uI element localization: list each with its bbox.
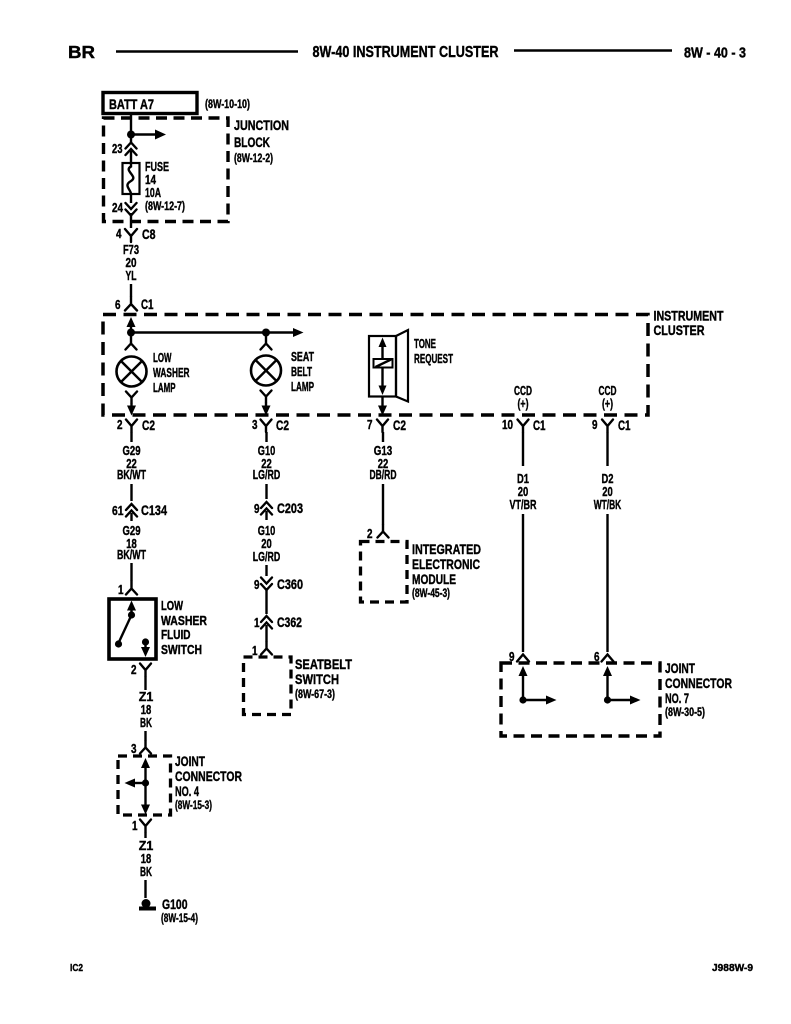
svg-text:20: 20 (518, 485, 529, 499)
connector chevrons C362 (up) (261, 616, 272, 629)
pin 24 label (112, 201, 123, 215)
wire connector to fuse (130, 151, 132, 163)
svg-text:MODULE: MODULE (412, 572, 456, 587)
svg-text:2: 2 (131, 663, 137, 677)
svg-text:7: 7 (367, 418, 373, 432)
switch entry arrow up (127, 601, 136, 614)
svg-text:FUSE: FUSE (145, 160, 169, 174)
svg-text:6: 6 (115, 298, 121, 312)
instrument cluster label (654, 309, 725, 339)
wire label G29 18 BK/WT (117, 524, 146, 562)
svg-text:CONNECTOR: CONNECTOR (175, 769, 242, 784)
svg-text:LOW: LOW (153, 351, 172, 365)
branch arrow right (131, 130, 166, 140)
connector C2 seat belt (Y) (261, 420, 272, 433)
pin 4 label (116, 227, 122, 241)
low washer lamp label (153, 351, 190, 395)
svg-text:G29: G29 (123, 524, 141, 538)
JC4 input connector (male) (140, 741, 151, 754)
low washer fluid switch label (161, 599, 207, 657)
pin 6 label JC7 right (594, 650, 600, 664)
svg-text:Z1: Z1 (139, 690, 154, 704)
IEM input connector (male) (378, 525, 389, 538)
svg-text:C2: C2 (393, 418, 406, 433)
svg-text:CONNECTOR: CONNECTOR (665, 676, 732, 691)
svg-text:SEATBELT: SEATBELT (295, 657, 353, 672)
svg-text:C203: C203 (277, 501, 303, 516)
svg-text:WT/BK: WT/BK (594, 498, 622, 512)
svg-text:J988W-9: J988W-9 (712, 962, 753, 974)
feed box BATT A7 (103, 93, 197, 114)
wire to C360 (265, 565, 267, 576)
svg-text:(8W-12-7): (8W-12-7) (145, 199, 185, 213)
svg-text:F73: F73 (123, 243, 139, 257)
low washer fluid switch box (109, 599, 156, 659)
wire batt to node (130, 114, 132, 134)
wire Z1 upper (144, 676, 146, 690)
seatbelt switch dashed box (244, 657, 292, 715)
svg-text:9: 9 (254, 578, 260, 592)
node bus dot seat belt (262, 329, 270, 337)
wire label G10 20 LG/RD (253, 524, 281, 564)
svg-text:CCD: CCD (514, 384, 532, 398)
JC7 left input connector (male) (517, 655, 529, 662)
pin 6 label (115, 298, 121, 312)
header label BR (68, 42, 95, 62)
pin 7 label (367, 418, 373, 432)
pin 3 label (131, 742, 137, 756)
connector chevrons 23 (up) (126, 143, 137, 156)
svg-text:4: 4 (116, 227, 122, 241)
joint connector no7 label (665, 661, 732, 719)
connector C8 (Y symbol) (125, 229, 137, 242)
pin 9 label C360 (254, 578, 260, 592)
seat belt lamp (251, 356, 281, 386)
connector chevrons 24 (down) (126, 203, 137, 216)
JC7 left entry arrow up (519, 666, 528, 700)
fuse 14 body (123, 163, 140, 194)
connector chevrons C360 (down) (261, 578, 272, 591)
wire to switch (130, 563, 132, 581)
wire fuse to connector 24 (130, 194, 132, 203)
switch pivot dot (128, 611, 135, 618)
tone request body (369, 330, 408, 402)
svg-text:3: 3 (131, 742, 137, 756)
wire label D2 20 WT/BK (594, 472, 622, 512)
wire below C2 low washer (130, 432, 132, 442)
wire YL to C1 (130, 284, 132, 297)
svg-text:C2: C2 (276, 418, 289, 433)
connector C362 name (277, 615, 302, 630)
header rule right (514, 49, 672, 52)
connector C360 name (277, 577, 303, 592)
svg-text:1: 1 (252, 644, 258, 658)
ground name G100 (162, 897, 188, 912)
wire label G10 22 LG/RD (253, 444, 281, 482)
CCD(+) label left (514, 384, 532, 411)
svg-text:BK/WT: BK/WT (117, 548, 146, 562)
bus wire with arrow (131, 328, 304, 337)
svg-text:C1: C1 (533, 418, 546, 433)
svg-text:YL: YL (126, 269, 137, 283)
svg-text:ELECTRONIC: ELECTRONIC (412, 557, 480, 572)
ground reference (161, 911, 198, 925)
svg-text:20: 20 (261, 537, 272, 551)
svg-text:10: 10 (502, 418, 513, 432)
fuse labels (145, 160, 185, 213)
svg-text:D2: D2 (602, 472, 614, 486)
JC4 entry arrow up (141, 758, 150, 783)
seat belt lamp bottom connector (261, 391, 272, 403)
svg-text:LAMP: LAMP (153, 381, 176, 395)
svg-text:INSTRUMENT: INSTRUMENT (654, 309, 725, 324)
pin 2 label (117, 418, 123, 432)
svg-text:G10: G10 (258, 444, 276, 458)
svg-text:(8W-15-3): (8W-15-3) (175, 798, 212, 812)
seat belt lamp label (291, 350, 314, 394)
lamp feed connector (low washer) (126, 333, 137, 350)
svg-text:8W - 40 - 3: 8W - 40 - 3 (684, 45, 746, 62)
entry arrow up at C1 (127, 317, 136, 332)
svg-text:SEAT: SEAT (291, 350, 314, 364)
reference (8W-10-10) (205, 97, 250, 111)
svg-text:VT/BR: VT/BR (510, 498, 537, 512)
svg-text:BK: BK (140, 865, 152, 879)
svg-text:INTEGRATED: INTEGRATED (412, 542, 481, 557)
seatbelt switch input connector (male) (261, 642, 272, 655)
svg-text:CCD: CCD (599, 384, 617, 398)
JC4 node dot (142, 779, 149, 786)
svg-text:Z1: Z1 (139, 839, 154, 853)
integrated electronic module label (412, 542, 481, 600)
connector C2 name tone (393, 418, 406, 433)
connector chevrons C203 (up) (261, 502, 272, 515)
header page number 8W-40-3 (684, 45, 746, 62)
svg-text:IC2: IC2 (70, 962, 83, 974)
wire ccd left upper (522, 432, 524, 466)
wire below C134 (130, 513, 132, 521)
connector C2 name seat belt (276, 418, 289, 433)
JC7 right entry arrow up (603, 666, 612, 700)
connector C2 tone (Y) (377, 420, 388, 433)
wire below C2 seat belt (265, 432, 267, 442)
joint connector no7 dashed box (501, 663, 660, 736)
svg-text:DB/RD: DB/RD (370, 468, 397, 482)
svg-text:(8W-67-3): (8W-67-3) (295, 687, 335, 701)
svg-text:C8: C8 (142, 227, 156, 242)
svg-text:LG/RD: LG/RD (253, 550, 281, 564)
svg-text:10A: 10A (145, 186, 161, 200)
connector C1 name ccd left (533, 418, 546, 433)
wire label F73 20 YL (123, 243, 139, 283)
svg-text:TONE: TONE (414, 337, 436, 351)
pin 1 label seatbelt switch (252, 644, 258, 658)
wire Z1 lower to label (144, 832, 146, 838)
joint connector no4 label (175, 754, 242, 812)
JC7 right branch arrow right (608, 696, 641, 705)
lamp feed connector (seat belt) (261, 333, 272, 350)
switch contact dot left (115, 640, 122, 647)
wire below C2 tone (382, 432, 384, 442)
svg-text:NO. 7: NO. 7 (665, 691, 689, 706)
pin 2 label IEM (367, 527, 373, 541)
pin 9 label JC7 left (509, 650, 515, 664)
svg-text:LAMP: LAMP (291, 380, 314, 394)
svg-text:8W-40 INSTRUMENT CLUSTER: 8W-40 INSTRUMENT CLUSTER (313, 44, 499, 61)
wire to C2 exit seat belt (262, 402, 271, 416)
svg-text:20: 20 (126, 256, 137, 270)
svg-text:18: 18 (141, 852, 152, 866)
pin 23 label (112, 142, 123, 156)
junction block label (234, 118, 289, 165)
wire below C203 (265, 511, 267, 520)
pin 61 label (112, 504, 124, 518)
svg-text:JOINT: JOINT (665, 661, 696, 676)
svg-text:G10: G10 (258, 524, 276, 538)
svg-text:C362: C362 (277, 615, 302, 630)
wire to C2 exit (127, 403, 136, 416)
tone request internal wire with arrows (379, 338, 387, 396)
wire label D1 20 VT/BR (510, 472, 537, 512)
svg-text:BK/WT: BK/WT (117, 468, 146, 482)
ground G100 (139, 899, 156, 909)
JC4 branch arrow left (125, 779, 146, 788)
switch output contact dot (142, 638, 149, 645)
svg-text:JOINT: JOINT (175, 754, 206, 769)
svg-text:2: 2 (117, 418, 123, 432)
svg-text:(8W-15-4): (8W-15-4) (161, 911, 198, 925)
connector C2 low washer (Y) (126, 420, 137, 433)
svg-text:14: 14 (145, 173, 156, 187)
wire label Z1 18 BK lower (139, 839, 154, 879)
wire Z1 to JC4 (144, 731, 146, 741)
svg-text:(8W-10-10): (8W-10-10) (205, 97, 250, 111)
pin 9 label C203 (254, 502, 260, 516)
footer label J988W-9 (712, 962, 753, 974)
pin 1 label C362 (254, 616, 260, 630)
svg-text:NO. 4: NO. 4 (175, 784, 199, 799)
low washer lamp (117, 357, 147, 387)
svg-text:LG/RD: LG/RD (253, 468, 281, 482)
svg-text:61: 61 (112, 504, 124, 518)
pin 9 label (592, 418, 598, 432)
svg-text:BATT A7: BATT A7 (109, 97, 154, 112)
svg-text:SWITCH: SWITCH (161, 643, 202, 657)
svg-text:D1: D1 (517, 472, 529, 486)
switch output connector (Y) (140, 664, 151, 677)
header title 8W-40 INSTRUMENT CLUSTER (313, 44, 499, 61)
svg-text:WASHER: WASHER (161, 614, 207, 628)
svg-text:FLUID: FLUID (161, 628, 191, 642)
connector C2 name (142, 418, 155, 433)
svg-text:WASHER: WASHER (153, 366, 190, 380)
connector C203 name (277, 501, 303, 516)
svg-text:2: 2 (367, 527, 373, 541)
connector C1 name (141, 297, 154, 312)
node bus dot left (127, 329, 135, 337)
pin 1 label switch (118, 583, 124, 597)
switch lever (119, 615, 132, 643)
pin 3 label (252, 418, 258, 432)
wire to C134 (130, 484, 132, 501)
svg-text:BELT: BELT (291, 365, 312, 379)
svg-text:G100: G100 (162, 897, 188, 912)
svg-text:(8W-45-3): (8W-45-3) (412, 586, 450, 600)
wire ccd left lower (522, 514, 524, 652)
wire ccd right lower (606, 514, 608, 652)
CCD(+) label right (599, 384, 617, 411)
svg-text:G13: G13 (374, 444, 393, 458)
connector C8 name (142, 227, 156, 242)
low washer lamp bottom connector (126, 392, 137, 404)
JC4 output connector (Y) (140, 820, 151, 833)
svg-text:BR: BR (68, 42, 95, 62)
svg-text:9: 9 (592, 418, 598, 432)
wire below C362 (265, 625, 267, 642)
wire node to connector 23 (130, 135, 132, 143)
connector C1 ccd right (Y) (602, 420, 613, 433)
svg-text:9: 9 (254, 502, 260, 516)
JC7 left node dot (519, 696, 526, 703)
tone request element box (374, 359, 393, 368)
svg-text:23: 23 (112, 142, 123, 156)
svg-text:(8W-30-5): (8W-30-5) (665, 705, 705, 719)
wire label G29 22 BK/WT (117, 444, 146, 482)
wire to ground (144, 880, 146, 898)
wire label Z1 18 BK (139, 690, 154, 730)
footer label IC2 (70, 962, 83, 974)
integrated electronic module dashed box (361, 542, 408, 603)
pin 2 label switch out (131, 663, 137, 677)
svg-text:C1: C1 (141, 297, 154, 312)
svg-text:BLOCK: BLOCK (234, 135, 270, 150)
header rule left (116, 50, 298, 53)
connector C1 name ccd right (618, 418, 631, 433)
svg-text:24: 24 (112, 201, 123, 215)
wire to IEM (382, 484, 384, 525)
svg-text:G29: G29 (123, 444, 141, 458)
svg-text:BK: BK (140, 716, 152, 730)
svg-text:(+): (+) (518, 397, 529, 411)
JC7 right node dot (604, 696, 611, 703)
svg-text:(8W-12-2): (8W-12-2) (234, 151, 273, 165)
wire tone request to C2 (378, 397, 387, 416)
switch input connector (male) (126, 581, 137, 595)
wire label G13 22 DB/RD (370, 444, 397, 482)
instrument cluster dashed box (103, 315, 648, 416)
joint connector no4 dashed box (118, 756, 171, 815)
junction block dashed box (104, 118, 229, 222)
svg-text:CLUSTER: CLUSTER (654, 323, 705, 338)
svg-text:REQUEST: REQUEST (414, 352, 453, 366)
svg-text:1: 1 (132, 819, 138, 833)
connector C134 name (141, 503, 167, 518)
JC7 left branch arrow right (523, 696, 557, 705)
wire ccd right upper (606, 432, 608, 466)
svg-text:C134: C134 (141, 503, 167, 518)
wire 24 to box edge (130, 213, 132, 228)
connector C1 (half, male) (125, 297, 137, 311)
wire below C360 (265, 588, 267, 614)
JC7 right input connector (male) (602, 655, 614, 662)
pin 10 label (502, 418, 513, 432)
svg-text:20: 20 (602, 485, 613, 499)
svg-text:3: 3 (252, 418, 258, 432)
connector chevrons C134 (up) (126, 504, 137, 517)
svg-text:1: 1 (118, 583, 124, 597)
seatbelt switch label (295, 657, 353, 701)
svg-text:C1: C1 (618, 418, 631, 433)
connector C1 ccd left (Y) (518, 420, 529, 433)
pin 1 label JC4 out (132, 819, 138, 833)
svg-text:C2: C2 (142, 418, 155, 433)
svg-text:JUNCTION: JUNCTION (234, 118, 289, 133)
svg-text:18: 18 (141, 703, 152, 717)
node junction dot (127, 131, 135, 139)
svg-text:C360: C360 (277, 577, 303, 592)
wire to C203 (265, 484, 267, 499)
svg-text:SWITCH: SWITCH (295, 672, 339, 687)
switch output arrow down (141, 642, 150, 657)
svg-text:(+): (+) (602, 397, 613, 411)
svg-text:1: 1 (254, 616, 260, 630)
JC4 exit arrow down (141, 783, 150, 815)
svg-text:LOW: LOW (161, 599, 183, 613)
tone request label (414, 337, 453, 366)
